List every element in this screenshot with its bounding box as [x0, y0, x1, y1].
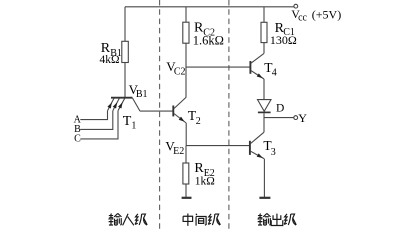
label RC2 — [194, 21, 215, 39]
svg-text:cc: cc — [298, 12, 307, 23]
svg-text:4: 4 — [272, 68, 277, 79]
wire T4 emitter to diode — [263, 79, 265, 99]
svg-text:1: 1 — [131, 120, 136, 131]
wire T3 emitter to ground — [263, 159, 265, 197]
transistor T3 emitter diagonal — [251, 151, 265, 158]
svg-text:3: 3 — [271, 147, 276, 158]
wire rail to RC2 — [185, 7, 187, 22]
wire Vcc top rail — [125, 6, 294, 8]
svg-text:D: D — [276, 103, 284, 115]
label RE2 — [194, 161, 214, 179]
transistor T1 emitter 3 arrow — [118, 102, 123, 108]
resistor RE2 — [183, 163, 189, 184]
transistor T4 emitter diagonal — [251, 71, 264, 79]
label T2 — [188, 108, 201, 127]
svg-text:C: C — [74, 134, 81, 145]
label RB1 — [101, 41, 122, 59]
label output stage (shu chu ji) — [258, 213, 297, 225]
label T4 — [264, 60, 277, 79]
wire input B — [80, 111, 113, 130]
transistor T2 emitter arrow — [179, 117, 185, 122]
resistor RB1 — [122, 41, 129, 62]
svg-text:4kΩ: 4kΩ — [100, 54, 120, 66]
ground at RE2 — [182, 197, 192, 199]
transistor T1 collector diagonal — [132, 98, 140, 111]
transistor T1 base bar — [111, 97, 132, 99]
label T3 — [263, 138, 275, 158]
wire input C — [80, 111, 118, 139]
wire RC2 to T2 collector — [185, 43, 187, 97]
wire rail to RB1 — [124, 7, 126, 42]
wire output Y branch — [264, 117, 294, 119]
node VE2 label — [165, 139, 184, 157]
transistor T4 collector diagonal — [251, 53, 264, 63]
transistor T2 base bar — [172, 106, 174, 117]
wire VE2 down to RE2 — [185, 146, 187, 163]
transistor T3 emitter arrow — [257, 153, 263, 158]
svg-text:2: 2 — [196, 116, 201, 127]
label T1 — [123, 114, 137, 131]
svg-text:C2: C2 — [174, 66, 186, 77]
diode D cathode bar — [258, 111, 271, 113]
wire input A — [80, 111, 107, 120]
wire diode to T3 collector — [263, 113, 265, 132]
wire T2 emitter down to VE2 — [185, 123, 187, 146]
svg-text:(+5V): (+5V) — [312, 7, 341, 21]
label RC1 — [275, 21, 295, 38]
transistor T4 base bar — [249, 61, 251, 74]
svg-text:E2: E2 — [173, 146, 184, 157]
svg-text:Y: Y — [298, 111, 307, 125]
label input stage (shu ru ji) — [109, 213, 148, 225]
label middle stage (zhong jian ji) — [183, 214, 220, 226]
label Vcc — [291, 7, 307, 23]
resistor RC2 — [183, 22, 189, 43]
wire rail to RC1 — [263, 7, 265, 22]
svg-text:1.6kΩ: 1.6kΩ — [193, 33, 224, 47]
terminal Y — [294, 116, 298, 120]
svg-text:1kΩ: 1kΩ — [195, 176, 215, 188]
transistor T4 emitter arrow — [257, 73, 263, 78]
transistor T2 collector diagonal — [174, 97, 186, 108]
svg-text:B1: B1 — [136, 89, 148, 100]
svg-text:130Ω: 130Ω — [270, 33, 297, 47]
node VC2 label — [166, 59, 185, 77]
resistor RC1 — [261, 22, 267, 42]
wire RE2 to ground — [185, 184, 187, 197]
wire RB1 to T1 base — [124, 63, 126, 98]
transistor T1 emitter 2 arrow — [113, 102, 118, 108]
wire VC2 to T4 base — [186, 66, 250, 68]
ground at T3 — [259, 197, 270, 199]
wire RC1 to T4 collector — [263, 43, 265, 54]
dashed stage separator line 2 — [228, 0, 230, 231]
dashed stage separator line 1 — [159, 0, 161, 231]
transistor T1 emitter 2 — [113, 98, 120, 111]
transistor T1 emitter 3 — [118, 98, 125, 111]
transistor T3 collector diagonal — [251, 132, 265, 143]
transistor T3 base bar — [249, 141, 251, 155]
transistor T2 emitter diagonal — [174, 114, 186, 124]
terminal Vcc — [294, 4, 298, 8]
transistor T1 emitter 1 — [108, 98, 115, 111]
transistor T1 emitter 1 arrow — [107, 102, 112, 108]
node VB1 label — [129, 82, 148, 100]
diode D triangle — [258, 100, 272, 112]
wire VE2 to T3 base — [186, 145, 250, 147]
wire T1 collector to T2 base — [140, 110, 173, 112]
